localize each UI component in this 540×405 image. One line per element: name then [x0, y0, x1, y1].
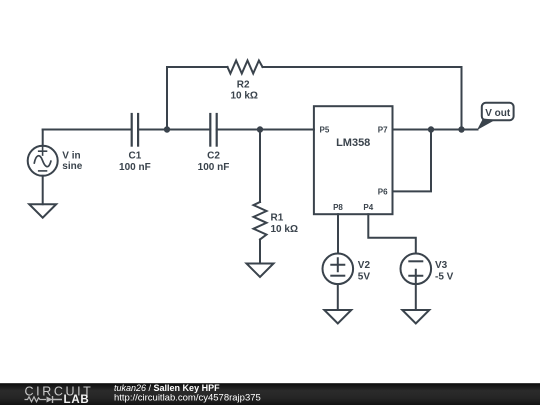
svg-text:10 kΩ: 10 kΩ [271, 224, 298, 235]
svg-text:LAB: LAB [64, 394, 90, 405]
wire op-amp output P7 [393, 129, 478, 131]
svg-text:10 kΩ: 10 kΩ [230, 90, 257, 101]
svg-text:P8: P8 [333, 203, 343, 212]
wire C2 to op-amp P5 [217, 129, 314, 131]
label V in sine [62, 151, 82, 173]
resistor R2 [228, 61, 263, 74]
node junction feedback at output [428, 126, 434, 132]
svg-text:P5: P5 [320, 125, 330, 134]
svg-text:P7: P7 [378, 125, 388, 134]
voltage source V3 [401, 253, 432, 284]
resistor R1 [254, 202, 267, 240]
label C2 100 nF [198, 150, 230, 173]
wire branch down to R1 [259, 130, 261, 203]
svg-text:100 nF: 100 nF [119, 162, 151, 173]
svg-text:C1: C1 [129, 150, 142, 161]
svg-text:C2: C2 [207, 150, 220, 161]
svg-text:100 nF: 100 nF [198, 162, 230, 173]
label R1 10 kOhm [271, 213, 298, 235]
wire top left to R2 [167, 66, 228, 68]
voltage source V2 [323, 253, 354, 284]
svg-text:P6: P6 [378, 187, 388, 196]
svg-text:-5 V: -5 V [435, 271, 454, 282]
label R2 10 kOhm [230, 79, 257, 101]
wire input to C1 [43, 129, 132, 131]
voltage source V1 (V in sine) [28, 146, 58, 176]
svg-text:V2: V2 [358, 260, 371, 271]
label V2 5V [358, 260, 371, 283]
ground under V1 [29, 204, 56, 218]
logo CIRCUIT LAB [25, 384, 94, 405]
capacitor C1 [132, 114, 138, 146]
wire R2 to right corner [263, 66, 462, 68]
wire C1 to C2 [138, 129, 210, 131]
wire V2 to ground [337, 284, 339, 310]
wire V1 bottom lead [42, 176, 44, 204]
svg-text:V3: V3 [435, 260, 448, 271]
svg-text:V out: V out [485, 108, 511, 119]
wire P8 to V2 [337, 214, 339, 253]
node junction R2 at output [458, 126, 464, 132]
svg-text:P4: P4 [363, 203, 373, 212]
node junction at R1 branch [257, 126, 263, 132]
footer bar [0, 383, 540, 405]
svg-text:sine: sine [62, 161, 82, 172]
wire V3 to ground [415, 284, 417, 310]
svg-text:5V: 5V [358, 271, 371, 282]
svg-text:LM358: LM358 [336, 137, 370, 149]
footer title text [114, 383, 261, 403]
ground under V3 [402, 310, 429, 324]
svg-text:R2: R2 [237, 79, 250, 90]
flag V out [477, 103, 514, 130]
ground under V2 [324, 310, 351, 324]
capacitor C2 [210, 114, 216, 146]
wire P4 to V3 [368, 214, 416, 253]
node junction at C1/R2 branch [164, 126, 170, 132]
svg-text:R1: R1 [271, 213, 284, 224]
op-amp U1 LM358 [314, 106, 393, 214]
wire V1 top lead [42, 130, 44, 146]
wire R1 to ground [259, 240, 261, 264]
label C1 100 nF [119, 150, 151, 173]
label V3 -5 V [435, 260, 454, 283]
wire P6 feedback [393, 130, 432, 192]
ground under R1 [247, 264, 274, 278]
svg-text:http://circuitlab.com/cy4578ra: http://circuitlab.com/cy4578rajp375 [114, 392, 261, 403]
svg-text:V in: V in [62, 151, 80, 162]
wire branch up to R2 [166, 67, 168, 130]
wire feedback down to output [461, 67, 463, 130]
